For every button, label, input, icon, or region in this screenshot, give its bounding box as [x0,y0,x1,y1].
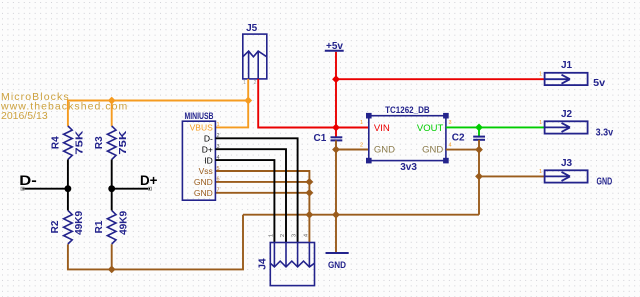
junction red at +5v/J1 tee [332,75,340,83]
svg-text:+5v: +5v [326,41,343,52]
wire brown C1 bottom down to GND symbol [335,140,337,252]
svg-text:1: 1 [268,234,274,237]
svg-text:75K: 75K [117,130,129,155]
wire brown regulator GND pin4 to C2 column [446,149,479,151]
svg-text:3: 3 [292,234,298,237]
wire orange J5.1 down to VBUS corner [215,79,248,128]
svg-text:3.3v: 3.3v [596,127,614,138]
svg-text:49K9: 49K9 [73,211,85,235]
svg-text:49K9: 49K9 [117,211,129,235]
wire black R3 to R1 [111,160,113,211]
svg-text:1: 1 [539,120,542,126]
wire black R4 to R2 [67,160,69,211]
svg-text:D-: D- [204,134,213,144]
svg-text:GND: GND [328,260,346,271]
connector J1 [545,73,588,85]
pin square D+ end [149,187,152,190]
junction brown at C1 column / gnd bus [332,211,340,219]
svg-text:GND: GND [194,188,213,198]
power symbol +5v [325,50,344,52]
junction black at D+/R column [108,185,115,192]
svg-text:C2: C2 [452,133,465,144]
svg-text:GND: GND [597,177,613,188]
junction brown at J3 tee [475,173,483,181]
wire brown C2 bottom to gnd bus corner [478,140,480,215]
svg-text:TC1262_DB: TC1262_DB [385,105,430,116]
junction red at C1/VIN cross [332,124,340,132]
junction orange at R3 top [108,97,116,105]
svg-text:J2: J2 [561,109,573,120]
resistor R1 49K9 [107,210,116,244]
svg-text:4: 4 [303,234,309,237]
svg-text:C1: C1 [314,133,327,144]
wire red to J1 [336,78,545,80]
junction brown gnd bus at MINIUSB column [306,211,314,219]
svg-text:5: 5 [217,166,220,172]
svg-text:D+: D+ [140,172,158,188]
wire brown to J3 [479,175,545,177]
junction brown at C2/pin4 [475,146,483,154]
svg-text:D+: D+ [202,144,213,154]
svg-text:D-: D- [19,172,37,188]
junction orange at J5 column [244,97,252,105]
junction black at D-/R column [65,185,72,192]
svg-text:1: 1 [243,80,246,86]
wire brown gnd bus horizontal [243,214,479,216]
svg-text:1: 1 [217,122,220,128]
wire orange drop to R3 [111,101,113,127]
svg-text:2: 2 [360,143,363,149]
MINIUSB pin numbers 1-7 [217,122,220,193]
svg-text:7: 7 [217,188,220,194]
svg-text:R3: R3 [94,136,105,149]
svg-text:3: 3 [449,120,452,126]
svg-text:1: 1 [539,169,542,175]
svg-text:J3: J3 [561,158,573,169]
wire red J5.2 down and right to VIN [258,79,369,128]
connector J2 [545,121,588,133]
junction brown pin7 [306,189,314,197]
junction brown pin6 [306,178,314,186]
svg-text:ID: ID [204,155,213,165]
capacitor C2 [473,137,485,140]
junction brown at R1 bottom [108,266,116,274]
svg-text:GND: GND [374,145,395,156]
svg-text:J1: J1 [561,60,573,71]
resistor R4 75K [64,126,73,160]
wire brown Vss pin5 [215,171,309,215]
connector MINIUSB [182,121,215,200]
wire brown GND pin6 [215,181,309,183]
connector J4 [270,243,314,286]
wire brown R1 bottom leg [111,244,113,269]
svg-text:1: 1 [360,120,363,126]
wire green VOUT to J2 [446,126,545,128]
svg-text:J4: J4 [258,258,269,270]
svg-text:VIN: VIN [374,123,390,134]
wire orange bus to resistors [68,101,248,127]
capacitor C1 [331,137,343,140]
svg-text:R2: R2 [50,220,61,233]
svg-text:1: 1 [539,72,542,78]
svg-text:R4: R4 [51,136,62,149]
wire black D- to J4 pin3 [215,138,297,242]
wire brown GND pin7 [215,192,309,194]
wire black D+ to J4 pin2 [215,149,286,242]
svg-text:2016/5/13: 2016/5/13 [1,110,48,122]
wire green C2 drop [478,127,480,136]
svg-text:R1: R1 [94,220,105,233]
wire black D+ net [112,188,150,190]
wire brown regulator GND pin2 to C1 column [336,149,369,151]
svg-text:VOUT: VOUT [417,123,444,134]
wire black ID to J4 pin1 [215,160,274,242]
svg-text:2: 2 [280,234,286,237]
svg-text:GND: GND [194,177,213,187]
wire brown to J4 pin 4 [308,215,310,243]
svg-text:VBUS: VBUS [190,123,213,133]
connector J3 [545,170,588,182]
junction brown at C1/pin2 [332,146,340,154]
resistor R2 49K9 [64,210,73,244]
svg-text:MINIUSB: MINIUSB [185,111,214,121]
svg-text:Vss: Vss [199,166,213,176]
svg-text:6: 6 [217,177,220,183]
svg-text:2: 2 [254,80,257,86]
svg-text:GND: GND [422,145,443,156]
junction green at C2 column [475,124,483,132]
svg-text:75K: 75K [73,130,85,155]
resistor R3 75K [107,126,116,160]
J4 pin numbers [268,234,309,237]
svg-text:5v: 5v [593,77,605,89]
title text block [0,91,128,122]
wire black D- net [23,188,68,190]
wire brown gnd bus left leg [68,215,243,270]
svg-text:3v3: 3v3 [400,162,417,173]
pin square D- end [21,187,24,190]
regulator U1 TC1262_DB [366,105,449,173]
connector J5 [243,34,267,79]
wire red +5v vertical [335,52,337,137]
ground symbol GND [326,252,349,254]
svg-text:J5: J5 [246,23,258,34]
